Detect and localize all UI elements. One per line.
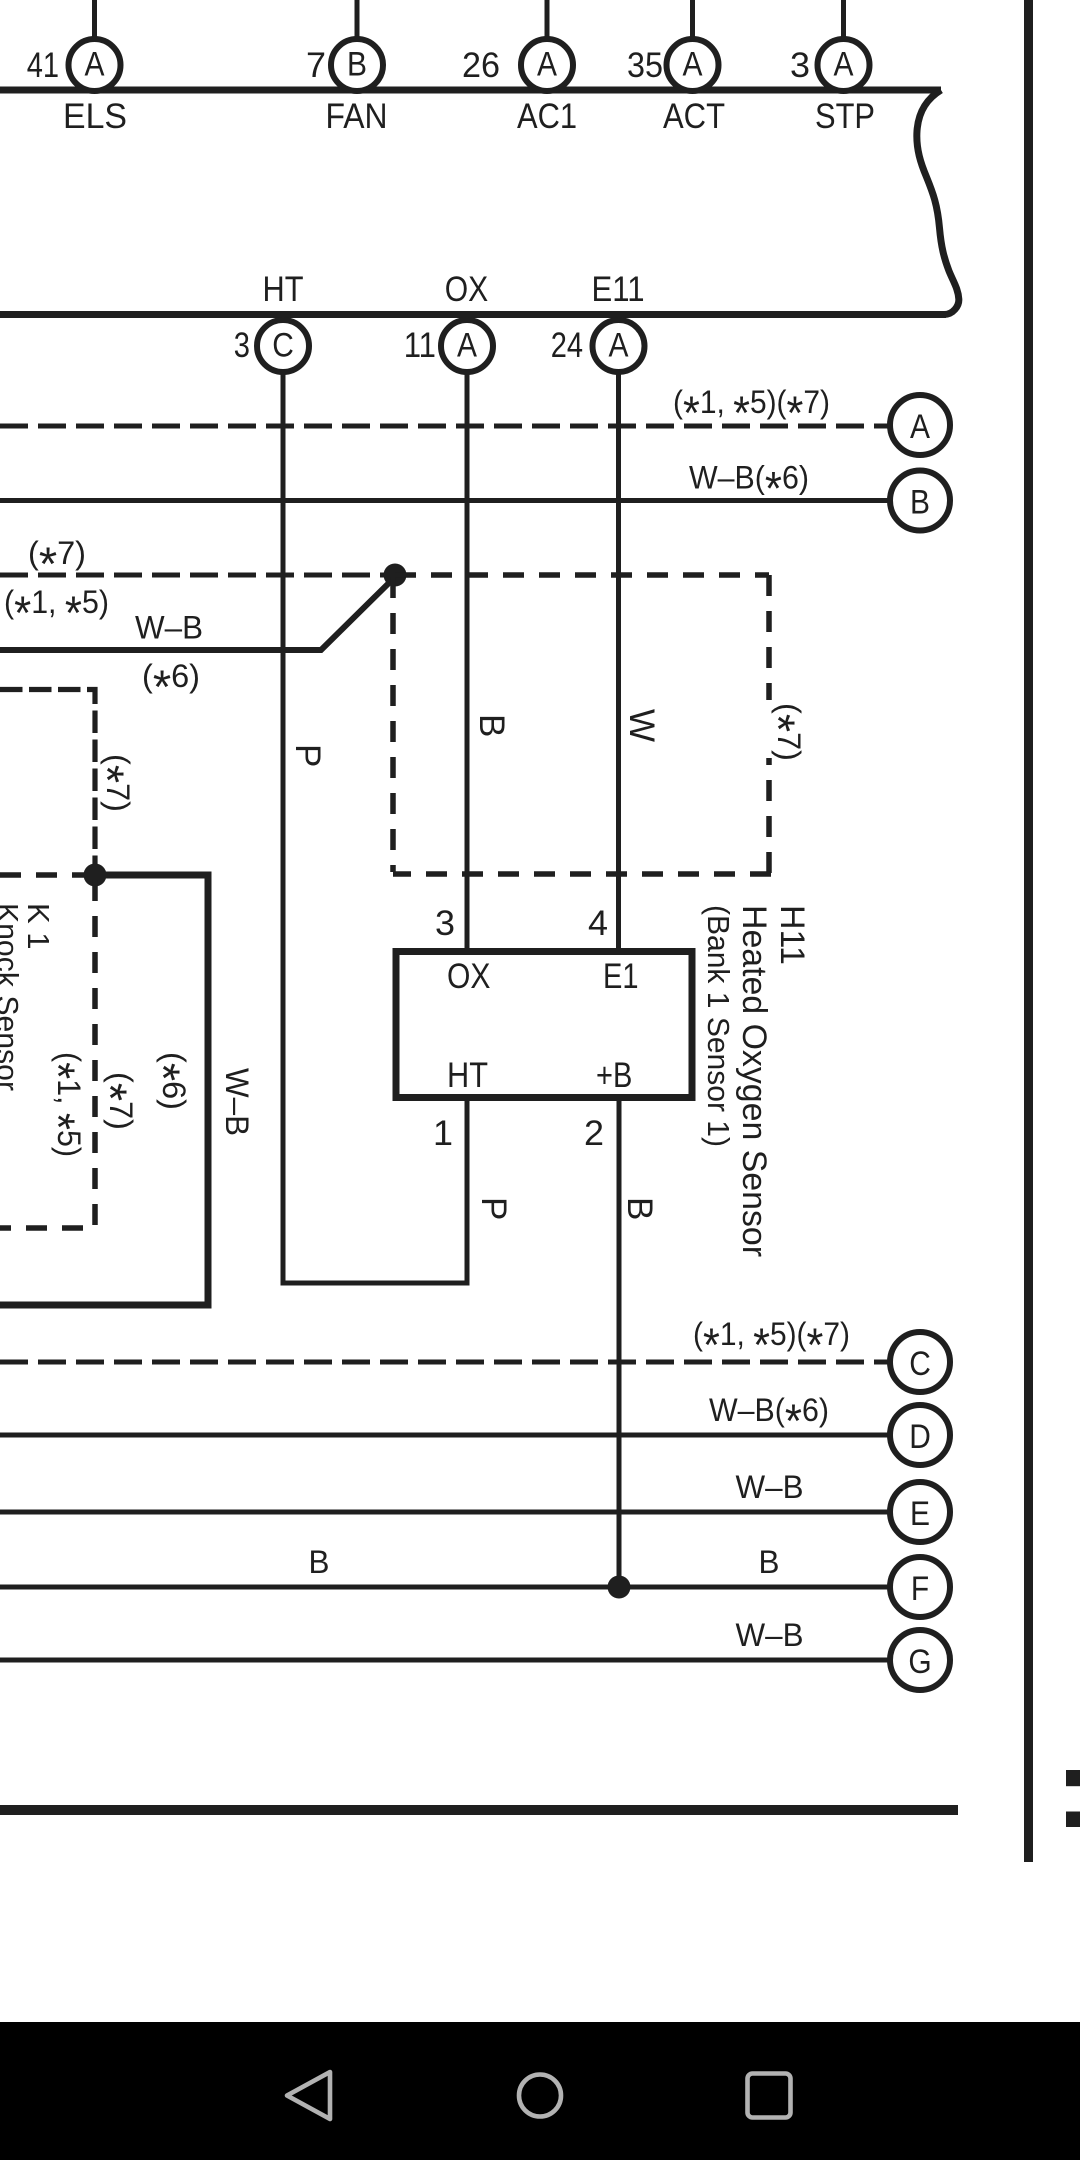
wire dashed branch above K1: [0, 690, 95, 870]
svg-text:P: P: [474, 1197, 513, 1220]
wire ACT pin lead: [690, 0, 695, 42]
svg-text:(*7): (*7): [81, 754, 136, 812]
wire P vertical from HT: [281, 372, 286, 1286]
wire dashed (*7) branch: [0, 573, 395, 578]
pin E11 24 A: [551, 270, 645, 372]
svg-text:7: 7: [306, 46, 326, 85]
connector circle G: [890, 1630, 950, 1690]
svg-text:+B: +B: [596, 1056, 632, 1095]
pin OX 11 A: [404, 270, 493, 372]
svg-text:W–B: W–B: [135, 610, 203, 646]
svg-text:FAN: FAN: [326, 97, 388, 136]
svg-text:(*1, *5): (*1, *5): [32, 1052, 87, 1157]
svg-text:(Bank 1 Sensor 1): (Bank 1 Sensor 1): [701, 905, 736, 1147]
connector circle D: [890, 1405, 950, 1465]
wire dashed to connector A: [0, 424, 888, 429]
wire +B pin 2 down to F: [617, 1097, 622, 1587]
svg-text:A: A: [537, 45, 557, 83]
svg-text:B: B: [620, 1197, 659, 1220]
wire dashed into K1: [0, 872, 90, 878]
ECU connector rail top: [0, 87, 941, 94]
frame border right: [1024, 0, 1033, 1862]
svg-text:C: C: [272, 326, 294, 364]
ECU connector rail bottom: [0, 311, 946, 318]
svg-text:E: E: [910, 1495, 930, 1533]
component K1 Knock Sensor box: [0, 875, 208, 1305]
dashed harness box (*7): [395, 572, 769, 578]
svg-text:B: B: [347, 45, 367, 83]
svg-text:A: A: [457, 326, 477, 364]
connector circle E: [890, 1482, 950, 1542]
wire dashed K1 loop: [0, 880, 95, 1228]
wire HT pin 1 down: [465, 1097, 470, 1286]
svg-text:24: 24: [551, 326, 583, 365]
svg-text:HT: HT: [447, 1056, 488, 1095]
wire to connector E: [0, 1510, 890, 1515]
svg-text:2: 2: [584, 1114, 604, 1153]
svg-text:41: 41: [27, 46, 59, 85]
svg-text:(*6): (*6): [142, 658, 200, 713]
svg-text:(*7): (*7): [28, 535, 86, 590]
pin 7 B FAN: [306, 39, 388, 136]
svg-text:B: B: [759, 1544, 780, 1580]
svg-text:F: F: [911, 1570, 929, 1608]
svg-text:W–B: W–B: [219, 1068, 255, 1136]
svg-text:A: A: [683, 45, 703, 83]
wire B vertical from OX: [465, 372, 470, 951]
svg-text:1: 1: [433, 1114, 453, 1153]
svg-text:W–B(*6): W–B(*6): [689, 460, 809, 515]
svg-text:A: A: [85, 45, 105, 83]
svg-text:W: W: [622, 709, 661, 742]
nav back icon: [287, 2072, 330, 2119]
svg-text:3: 3: [435, 904, 455, 943]
svg-text:C: C: [909, 1345, 931, 1383]
svg-text:AC1: AC1: [517, 97, 577, 136]
svg-text:A: A: [609, 326, 629, 364]
svg-text:Knock Sensor: Knock Sensor: [0, 903, 25, 1091]
svg-text:OX: OX: [447, 957, 491, 996]
svg-text:W–B: W–B: [736, 1469, 804, 1505]
component H11 Heated Oxygen Sensor box: [396, 952, 692, 1098]
svg-text:E11: E11: [592, 270, 645, 309]
nav home icon: [519, 2075, 561, 2117]
svg-text:B: B: [309, 1544, 330, 1580]
wire STP pin lead: [841, 0, 846, 42]
wire W-B to connector B: [0, 498, 890, 503]
svg-text:H11: H11: [773, 905, 811, 965]
junction dot K1: [84, 864, 107, 887]
wire HT to P horizontal: [281, 1281, 470, 1286]
svg-text:HT: HT: [263, 270, 304, 309]
svg-text:A: A: [910, 408, 930, 446]
svg-text:ELS: ELS: [63, 97, 127, 136]
svg-text:A: A: [834, 45, 854, 83]
svg-text:D: D: [909, 1418, 931, 1456]
pin 3 A STP: [790, 39, 875, 136]
connector circle F: [890, 1557, 950, 1617]
wire ELS pin lead: [92, 0, 97, 42]
wire to connector G: [0, 1658, 890, 1663]
svg-text:(*6): (*6): [137, 1052, 192, 1110]
scroll marker square 2: [1066, 1812, 1080, 1828]
wire W-B solid with diagonal to junction: [0, 576, 396, 650]
svg-text:G: G: [908, 1643, 931, 1681]
torn-edge wave: [917, 90, 959, 315]
svg-text:(*7): (*7): [752, 703, 807, 761]
svg-text:B: B: [472, 714, 511, 737]
wire W vertical from E11: [616, 372, 621, 951]
svg-text:W–B(*6): W–B(*6): [709, 1392, 829, 1447]
svg-text:3: 3: [790, 46, 810, 85]
wire to connector F: [0, 1585, 890, 1590]
svg-text:W–B: W–B: [736, 1617, 804, 1653]
pin 26 A AC1: [462, 39, 577, 136]
svg-text:STP: STP: [815, 97, 875, 136]
scroll marker square 1: [1066, 1770, 1080, 1786]
svg-text:ACT: ACT: [663, 97, 725, 136]
connector circle A: [890, 395, 950, 455]
connector circle B: [890, 471, 950, 531]
junction dot B wire on F: [608, 1576, 631, 1599]
wire dashed to connector C: [0, 1360, 888, 1365]
svg-text:11: 11: [404, 326, 436, 365]
pin HT 3 C: [234, 270, 309, 372]
svg-text:Heated Oxygen Sensor: Heated Oxygen Sensor: [735, 905, 773, 1257]
nav recents icon: [748, 2074, 791, 2118]
svg-text:OX: OX: [445, 270, 489, 309]
wire FAN pin lead: [355, 0, 360, 42]
pin 35 A ACT: [627, 39, 725, 136]
android navigation bar: [0, 2022, 1080, 2160]
svg-text:(*1, *5)(*7): (*1, *5)(*7): [673, 384, 830, 439]
frame rail bottom: [0, 1805, 958, 1815]
pin 41 A ELS: [27, 39, 127, 136]
svg-text:(*1, *5): (*1, *5): [4, 584, 109, 639]
svg-text:P: P: [288, 744, 327, 767]
wire to connector D: [0, 1433, 890, 1438]
svg-text:E1: E1: [603, 957, 639, 996]
svg-text:4: 4: [588, 904, 608, 943]
svg-text:B: B: [910, 484, 930, 522]
svg-text:K 1: K 1: [21, 903, 56, 950]
svg-text:3: 3: [234, 326, 250, 365]
wire AC1 pin lead: [545, 0, 550, 42]
svg-text:26: 26: [462, 46, 500, 85]
connector circle C: [890, 1332, 950, 1392]
junction dot at dashed branch: [384, 564, 407, 587]
svg-text:35: 35: [627, 46, 663, 85]
